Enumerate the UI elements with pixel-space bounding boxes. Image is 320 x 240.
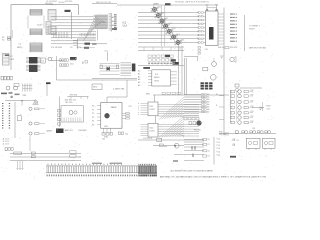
wire kb vertical	[14, 102, 16, 138]
IC U1 bottom bar	[112, 28, 117, 29]
label CN1 top labels	[47, 164, 50, 165]
IC U10 box	[48, 10, 56, 21]
svg-text:R45 1k: R45 1k	[218, 47, 224, 49]
connector CN2 ribbon	[30, 10, 42, 16]
svg-text:a: a	[138, 108, 139, 110]
svg-text:D0-D7: D0-D7	[37, 25, 42, 27]
resistor R20 boxes	[126, 112, 130, 114]
svg-text:A0: A0	[138, 70, 140, 73]
resistor R25	[35, 108, 40, 110]
capacitor C62 stack	[233, 139, 234, 146]
svg-text:R50 220: R50 220	[230, 47, 237, 49]
IC U15 left pins	[141, 104, 149, 115]
arrow tape	[79, 153, 82, 157]
wire q2 row	[51, 60, 64, 62]
inductor L1 box	[14, 84, 19, 87]
bus ram mesh h2	[158, 125, 199, 137]
buffer dark blob3	[173, 62, 180, 65]
IC U3 box	[3, 54, 10, 66]
bus mesh verticals 2	[96, 15, 108, 30]
svg-text:C50: C50	[252, 128, 255, 130]
svg-text:K1: K1	[208, 144, 210, 146]
IC U2 right pins	[218, 14, 224, 44]
svg-text:A1: A1	[138, 72, 140, 75]
power symbol +5V b	[215, 8, 218, 11]
battery BT1 bar	[46, 82, 51, 84]
IC U4 dark box A	[29, 57, 38, 64]
IC U2 CPU box	[206, 11, 219, 46]
IC U16 box	[148, 123, 158, 137]
bus ram mesh h	[158, 105, 199, 117]
svg-text:P2: P2	[92, 113, 94, 115]
diode D2 tri	[35, 100, 38, 105]
IC U2 left pins	[203, 13, 205, 43]
connector CN5 squares	[1, 76, 3, 80]
wire long horizontal y80	[57, 79, 138, 81]
wire ctrl drops	[144, 47, 180, 51]
buffer dark blob2	[171, 59, 176, 62]
svg-text:→→: →→	[71, 159, 75, 161]
label tl texts	[1, 93, 7, 95]
svg-text:A2: A2	[138, 75, 140, 78]
ground symbol tape	[16, 168, 23, 169]
audio chain parts	[242, 131, 244, 133]
svg-text:a: a	[138, 112, 139, 114]
separator line	[244, 15, 246, 51]
svg-text:40010: 40010	[154, 77, 159, 79]
label U1 inner column	[114, 14, 117, 15]
svg-text:P1: P1	[92, 109, 94, 111]
wire vertical xtal	[161, 5, 165, 46]
wire audio rail	[219, 132, 276, 134]
svg-text:…: …	[231, 152, 233, 154]
register U5 box	[41, 58, 46, 63]
svg-text:A5: A5	[138, 84, 140, 87]
svg-text:C4: C4	[19, 44, 21, 46]
IC U16 left pins	[141, 125, 149, 136]
svg-text:IC4 74LS245: IC4 74LS245	[51, 47, 62, 49]
svg-text:AMSTRAD CPC 464 MAIN BOARD CIR: AMSTRAD CPC 464 MAIN BOARD CIRCUIT DIAGR…	[160, 176, 267, 179]
svg-text:ALL RESISTORS 1/4W 5% UNLESS S: ALL RESISTORS 1/4W 5% UNLESS STATED	[171, 170, 214, 173]
svg-text:R10: R10	[158, 6, 161, 8]
connector CN1 dark end	[138, 166, 156, 174]
bus mesh verticals	[54, 32, 68, 38]
capacitor C22	[117, 65, 119, 69]
resistor R27	[35, 133, 40, 135]
buffer dark blob1	[165, 55, 170, 57]
IC U1 ULA pins	[110, 13, 112, 32]
svg-text:R76: R76	[251, 121, 254, 123]
svg-text:R11: R11	[162, 12, 165, 14]
svg-text:TAPE MOTOR REM: TAPE MOTOR REM	[249, 46, 266, 49]
wire video vert	[229, 90, 231, 123]
IC U7 box	[152, 70, 171, 86]
svg-text:A0: A0	[112, 16, 114, 19]
component tape box	[70, 151, 76, 154]
video amp chain	[231, 90, 234, 93]
resistor col snd	[58, 110, 61, 112]
connector CN1 pins	[47, 166, 156, 173]
wire tape drops	[18, 161, 23, 168]
svg-text:100n: 100n	[70, 64, 74, 66]
wire video out	[252, 107, 264, 109]
label U3 top dark	[5, 54, 9, 56]
bus addr lines right	[184, 95, 202, 113]
svg-text:R72: R72	[251, 100, 254, 102]
crystal X2 lines	[100, 64, 120, 75]
svg-text:Z8400: Z8400	[111, 107, 118, 109]
wire right stubs	[219, 96, 224, 120]
svg-text:P1-1: P1-1	[217, 142, 221, 144]
svg-text:A4: A4	[112, 20, 114, 23]
wire video links	[235, 92, 237, 122]
svg-text:C30: C30	[205, 49, 208, 51]
svg-text:β: β	[82, 61, 84, 65]
wire right short	[174, 154, 184, 156]
IC U8 right pins	[122, 113, 126, 118]
svg-text:22u 100n: 22u 100n	[46, 4, 54, 6]
connector CN7	[235, 84, 239, 87]
transistor Q1 array diagonal	[153, 8, 157, 12]
svg-text:K3: K3	[208, 156, 210, 158]
svg-text:C1 C2 R3 R4: C1 C2 R3 R4	[46, 1, 57, 3]
svg-text:R60 470: R60 470	[194, 129, 201, 131]
svg-text:R70: R70	[251, 90, 254, 92]
wire dark segment	[92, 43, 97, 44]
label box L	[92, 84, 102, 90]
svg-text:ULA: ULA	[123, 25, 128, 28]
IC U15 box	[148, 102, 158, 116]
IC U14 small	[18, 116, 22, 121]
transistor Q9	[29, 122, 32, 125]
svg-text:PHONES: PHONES	[79, 130, 88, 132]
IC U6 dark bar	[132, 64, 136, 72]
wire u8 top	[107, 80, 127, 103]
svg-text:R33 R34: R33 R34	[70, 95, 77, 97]
ground symbol gnd1	[220, 56, 223, 58]
transistor Q14	[174, 143, 179, 148]
svg-text:VIDEO: VIDEO	[249, 29, 255, 31]
resistor pairs ram	[202, 94, 204, 95]
svg-text:J1 J2 J3: J1 J2 J3	[3, 144, 10, 146]
component kbd col	[203, 138, 207, 140]
IC U7 left pins	[148, 71, 152, 86]
svg-text:TO SHEET 2: TO SHEET 2	[249, 26, 260, 28]
label y92 row	[162, 92, 166, 94]
wire mid vertical	[56, 56, 58, 80]
wire clock stub	[107, 52, 109, 61]
wire vert x214	[213, 137, 215, 165]
svg-text:C15-18: C15-18	[70, 60, 76, 62]
svg-text:a: a	[138, 110, 139, 112]
svg-text:CRTC: CRTC	[154, 80, 160, 82]
svg-text:C2C: C2C	[128, 106, 132, 108]
diode D3 tri	[33, 101, 39, 105]
wire gear diagonal	[153, 8, 180, 44]
svg-text:R71: R71	[251, 94, 254, 96]
svg-text:MREQ: MREQ	[17, 47, 23, 49]
wire mesh bl	[23, 84, 32, 92]
svg-text:o o: o o	[5, 150, 8, 152]
dark block snd	[56, 129, 64, 134]
component row rc	[184, 117, 187, 120]
svg-text:R2: R2	[2, 39, 4, 41]
capacitor C20 dark	[70, 57, 77, 60]
capacitor bank row1	[60, 59, 62, 62]
label U13 name	[85, 43, 91, 45]
resistor R10 box	[203, 67, 208, 71]
svg-text:P1-2: P1-2	[217, 145, 221, 147]
capacitor bank row2	[60, 64, 62, 67]
wire y65	[138, 65, 184, 67]
wire joy line	[138, 139, 204, 141]
IC U13 top pin comb	[80, 33, 95, 36]
label CN1 bottom labels	[47, 175, 48, 177]
speaker LS1	[230, 57, 234, 61]
bus ram staircase	[159, 97, 184, 120]
svg-text:C8: C8	[237, 140, 239, 142]
svg-text:TR4 TR5: TR4 TR5	[65, 102, 73, 104]
wire kbd bundle	[184, 140, 204, 161]
svg-text:A8: A8	[112, 24, 114, 27]
svg-text:P3: P3	[92, 117, 94, 119]
svg-text:K0: K0	[208, 139, 210, 141]
label U13 sub	[84, 47, 89, 49]
wire u8 top2	[67, 96, 88, 98]
connector CN1 top line	[46, 165, 157, 167]
svg-text:16MHz: 16MHz	[153, 4, 159, 6]
svg-text:1/2W: 1/2W	[77, 47, 82, 49]
svg-text:K2: K2	[208, 150, 210, 152]
transistor Q5	[14, 86, 18, 90]
svg-text:P1-3: P1-3	[217, 148, 221, 150]
connector CN3 ribbon	[30, 29, 42, 35]
modulator CN6 dark grid	[201, 82, 204, 84]
IC U4 dark box B	[29, 65, 38, 72]
capacitor satellites	[157, 7, 159, 8]
svg-text:a: a	[138, 114, 139, 116]
IC U13 ROM box	[78, 39, 96, 49]
transistor Q7	[211, 75, 217, 81]
resistor RP1 column	[198, 12, 200, 13]
IC U7 right pins	[171, 72, 177, 84]
connector CN1 bottom line	[46, 172, 157, 174]
wire y56 right	[184, 56, 198, 58]
wire vertical bus stub	[10, 46, 12, 70]
wire ribbon join	[28, 16, 44, 29]
wire tape lines	[10, 153, 81, 161]
capacitor C25 pair	[118, 132, 120, 134]
label U2 dark label	[209, 27, 214, 40]
svg-text:VDD 5V C12 C13: VDD 5V C12 C13	[96, 2, 111, 4]
svg-text:IC8 7805: IC8 7805	[65, 1, 72, 3]
IC U13 left pins	[73, 40, 78, 45]
transistor Q11	[69, 111, 73, 115]
wire faint pair	[11, 30, 13, 38]
svg-text:CPU: CPU	[104, 126, 109, 128]
wire y100	[5, 100, 35, 102]
resistor R70	[14, 152, 22, 154]
box sound outline	[61, 106, 84, 122]
svg-text:P1-4: P1-4	[217, 151, 221, 153]
wire pair down	[185, 58, 187, 95]
transistor Q2	[48, 57, 52, 61]
svg-text:4.43MHz PAL: 4.43MHz PAL	[113, 87, 125, 90]
svg-text:A4: A4	[138, 81, 140, 84]
transistor Q4	[6, 86, 10, 90]
capacitor C61 marks	[193, 154, 194, 157]
svg-text:IC11: IC11	[150, 106, 154, 108]
label CN1 end top	[138, 164, 141, 166]
svg-text:IC6: IC6	[41, 61, 44, 63]
resistor R1 pair	[8, 37, 11, 38]
IC U8 Z80 box	[101, 103, 122, 129]
power symbol +5V a	[206, 8, 209, 11]
transistor Q10	[29, 132, 32, 135]
transistor Q6	[212, 62, 217, 67]
IC U6 comb	[121, 63, 132, 76]
svg-text:LS32: LS32	[10, 59, 14, 61]
crystal X1 box	[165, 3, 171, 5]
logo U8 dark	[105, 113, 110, 118]
resistor R26	[35, 123, 40, 125]
svg-text:R75: R75	[251, 116, 254, 118]
bus data lines upper	[51, 17, 107, 29]
svg-text:AMP VOL: AMP VOL	[65, 129, 73, 132]
capacitor C60 marks	[192, 146, 193, 149]
bus mesh extra h	[93, 15, 108, 27]
wire up stub	[29, 136, 31, 151]
svg-text:LS157: LS157	[150, 131, 155, 133]
wire right thick	[173, 160, 178, 162]
svg-text:R15: R15	[177, 34, 180, 36]
svg-text:R14: R14	[173, 28, 176, 30]
label joy r	[159, 144, 163, 146]
label CN1 end bottom	[138, 175, 139, 177]
capacitor C21	[100, 65, 102, 69]
svg-text:MOD: MOD	[93, 87, 98, 89]
crystal X3 parts	[102, 133, 105, 136]
wire vertical x71	[71, 12, 73, 39]
svg-text:LK2: LK2	[102, 138, 105, 140]
svg-text:R13: R13	[169, 23, 172, 25]
svg-text:SW1: SW1	[23, 95, 27, 97]
modulator M1 box	[246, 138, 260, 148]
svg-text:P4: P4	[92, 121, 94, 123]
label gate row3	[148, 63, 150, 64]
IC U8 bottom pins	[103, 128, 111, 133]
wire vertical x97	[96, 30, 98, 41]
bus data lines lower	[51, 32, 96, 41]
bus riser staircase	[84, 16, 107, 41]
wire row y78	[92, 78, 137, 80]
svg-text:R16: R16	[181, 39, 184, 41]
svg-text:R12: R12	[165, 18, 168, 20]
svg-text:IC7: IC7	[10, 56, 13, 58]
IC U11 box	[48, 26, 56, 34]
svg-text:IC12: IC12	[150, 128, 154, 130]
wire verticals x178	[179, 46, 183, 95]
wire long vertical right	[223, 8, 225, 136]
wire bus bottom	[51, 43, 107, 45]
capacitor C28	[189, 122, 192, 125]
wire y95 rail	[153, 94, 229, 96]
bus ram staircase2	[159, 116, 184, 138]
wire dark piece	[143, 67, 150, 69]
label IC1 dark	[65, 10, 71, 12]
wire joy line2	[153, 145, 184, 147]
link row LK	[5, 148, 7, 151]
wire y88 right	[240, 87, 262, 89]
wire ctrl lines	[138, 47, 184, 51]
resistor R71	[31, 152, 35, 154]
svg-text:LM386: LM386	[46, 131, 52, 133]
svg-text:22p: 22p	[125, 133, 128, 135]
transistor Q12 dark	[197, 121, 202, 126]
label U2 pin labels	[230, 14, 235, 15]
wire cpu top	[207, 7, 217, 9]
svg-text:a: a	[138, 103, 139, 105]
IC U8 left pins	[97, 106, 101, 125]
svg-text:R74: R74	[251, 111, 254, 113]
wire top rail right	[117, 4, 218, 6]
wire top rail left	[11, 5, 79, 46]
svg-text:a: a	[138, 105, 139, 107]
capacitor C23 col	[198, 47, 200, 49]
wire y115 right	[184, 115, 199, 117]
logic gate row	[148, 55, 151, 57]
svg-text:P1-0: P1-0	[217, 139, 221, 141]
logic gate row2	[148, 59, 151, 61]
svg-text:IC5: IC5	[155, 74, 158, 76]
label strip text a	[92, 163, 102, 164]
diode D1 pair dark	[107, 67, 110, 71]
modulator M2 box	[263, 138, 276, 148]
connector CN4 ribbon	[30, 43, 42, 52]
bus lines right	[138, 13, 199, 43]
connector CN9 pins	[9, 103, 10, 104]
hatch sound bottom	[63, 118, 81, 122]
wire u15 u16 link	[155, 116, 157, 124]
wire top mid rail	[92, 3, 117, 5]
transistor Q8	[29, 107, 32, 110]
IC U12 box left	[46, 22, 51, 34]
svg-text:R80: R80	[164, 146, 167, 148]
transistor Q13	[235, 130, 239, 134]
svg-text:A3: A3	[138, 78, 140, 81]
component joy box	[157, 138, 162, 141]
wire snd vertical	[59, 97, 61, 128]
connector CN8 pins	[2, 103, 3, 104]
